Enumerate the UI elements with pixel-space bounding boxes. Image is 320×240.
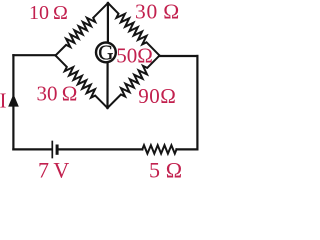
label 90Ω [138,84,176,108]
label 7 V [38,158,69,183]
svg-text:30 Ω: 30 Ω [135,0,180,23]
label I [0,89,7,113]
resistor R5 5Ω (bottom rail) [142,145,176,153]
svg-text:7 V: 7 V [38,158,69,179]
wire left vertical rail [12,55,14,149]
wire bottom rail middle segment (battery to resistor) [58,148,142,150]
battery B1 7V short negative plate [56,146,59,153]
current arrow I on left rail [8,94,19,107]
svg-text:10 Ω: 10 Ω [29,2,68,24]
wire bottom rail right segment (resistor to right rail) [177,148,198,150]
battery B1 7V long positive plate [51,142,53,158]
wire top-left horizontal (left vertex to left rail) [13,54,55,56]
galvanometer letter G [98,41,113,65]
wire bottom rail left segment (to battery) [13,148,51,150]
resistor R4 90Ω (bottom-right bridge arm, bottom vertex to right vertex) [108,56,160,109]
wire top-right horizontal (right rail to right vertex) [160,55,198,57]
svg-text:G: G [98,41,113,65]
label 5 Ω [149,157,183,182]
wire galvanometer branch upper (top vertex to galvanometer) [107,3,109,45]
svg-text:5 Ω: 5 Ω [149,157,183,179]
label 30 Ω top-right [135,0,180,23]
resistor R1 10Ω (top-left bridge arm, left vertex to top vertex) [56,3,109,56]
label 30 Ω bottom-left [37,81,78,105]
label 10 Ω [29,2,68,24]
svg-text:90Ω: 90Ω [138,84,176,108]
label 50Ω [116,44,153,68]
wire galvanometer branch lower (galvanometer to bottom vertex) [106,61,108,109]
svg-text:I: I [0,89,7,113]
svg-text:30 Ω: 30 Ω [37,81,78,105]
galvanometer U1 circle [96,43,116,63]
resistor R3 30Ω (bottom-left bridge arm, left vertex to bottom vertex) [56,56,108,109]
wire right vertical rail [196,56,198,149]
resistor R2 30Ω (top-right bridge arm, top vertex to right vertex) [108,3,160,56]
svg-text:50Ω: 50Ω [116,44,153,68]
